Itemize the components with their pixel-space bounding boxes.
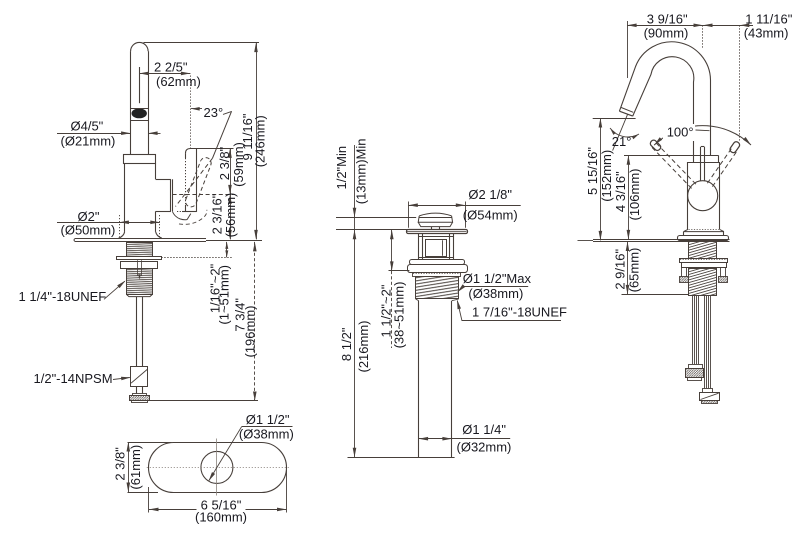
svg-text:8 1/2": 8 1/2" [339,327,354,361]
svg-text:(13mm)Min: (13mm)Min [354,139,369,205]
svg-text:(56mm): (56mm) [223,193,238,238]
svg-text:(1~51mm): (1~51mm) [217,265,232,325]
svg-text:2 3/8": 2 3/8" [217,146,232,180]
svg-text:1 1/4"-18UNEF: 1 1/4"-18UNEF [19,289,107,304]
svg-text:1/2"Min: 1/2"Min [334,146,349,190]
svg-text:Ø1 1/2"Max: Ø1 1/2"Max [463,271,532,286]
svg-text:(90mm): (90mm) [644,26,689,41]
svg-text:(Ø50mm): (Ø50mm) [61,223,116,238]
svg-text:(43mm): (43mm) [744,26,789,41]
svg-text:2 3/8": 2 3/8" [112,447,127,481]
svg-text:1 7/16"-18UNEF: 1 7/16"-18UNEF [472,305,567,320]
svg-text:(Ø38mm): (Ø38mm) [239,427,294,442]
svg-text:(65mm): (65mm) [627,248,642,293]
svg-text:100°: 100° [667,124,694,139]
svg-text:Ø2": Ø2" [78,209,100,224]
svg-text:(246mm): (246mm) [253,115,268,167]
svg-text:21°: 21° [612,134,632,149]
svg-text:(216mm): (216mm) [356,320,371,372]
svg-text:1 11/16": 1 11/16" [745,11,792,26]
svg-text:(106mm): (106mm) [627,168,642,220]
svg-text:Ø1 1/4": Ø1 1/4" [462,422,506,437]
svg-text:(Ø38mm): (Ø38mm) [468,286,523,301]
svg-text:4 3/16": 4 3/16" [613,171,628,212]
svg-text:(Ø21mm): (Ø21mm) [61,133,116,148]
svg-text:5 15/16": 5 15/16" [585,147,600,195]
svg-text:(38~51mm): (38~51mm) [391,282,406,349]
svg-text:(160mm): (160mm) [195,510,247,525]
svg-text:(62mm): (62mm) [156,74,201,89]
svg-text:3 9/16": 3 9/16" [647,11,688,26]
svg-text:(Ø32mm): (Ø32mm) [457,439,512,454]
svg-text:(Ø54mm): (Ø54mm) [463,207,518,222]
svg-text:Ø4/5": Ø4/5" [71,119,104,134]
svg-text:Ø1 1/2": Ø1 1/2" [246,412,290,427]
svg-text:1/2"-14NPSM: 1/2"-14NPSM [34,371,113,386]
svg-text:(152mm): (152mm) [599,150,614,202]
svg-text:(61mm): (61mm) [128,445,143,490]
svg-text:(196mm): (196mm) [243,305,258,357]
svg-text:23°: 23° [204,105,224,120]
svg-text:2 9/16": 2 9/16" [613,249,628,290]
svg-text:Ø2 1/8": Ø2 1/8" [468,187,512,202]
svg-text:2 2/5": 2 2/5" [154,60,188,75]
